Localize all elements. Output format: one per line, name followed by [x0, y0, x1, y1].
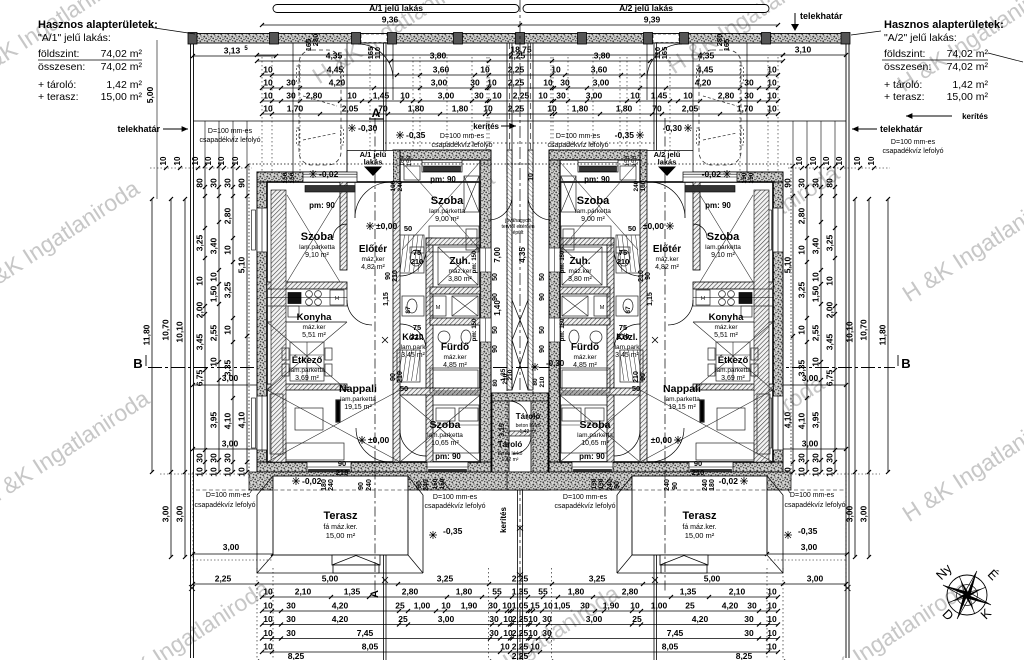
- column extension lines up: [204, 121, 206, 166]
- svg-text:10: 10: [492, 91, 502, 101]
- svg-text:90: 90: [358, 482, 365, 490]
- unit A/1 wall szoba1/konyha: [267, 282, 347, 289]
- A/1 door arc elotér-szoba1: [333, 224, 347, 238]
- svg-text:10: 10: [538, 91, 548, 101]
- vcol x855r: [854, 199, 856, 557]
- svg-text:2,80: 2,80: [223, 207, 233, 224]
- svg-text:1,00: 1,00: [651, 601, 668, 611]
- dim 3,10 right: [783, 54, 846, 56]
- unit A/2 inner face: [560, 182, 773, 462]
- svg-text:75: 75: [413, 323, 421, 332]
- svg-text:3,25: 3,25: [223, 281, 233, 298]
- svg-text:9,00 m²: 9,00 m²: [581, 216, 605, 223]
- svg-text:pm: 150: pm: 150: [560, 250, 566, 273]
- svg-text:10: 10: [809, 156, 818, 165]
- svg-text:25: 25: [685, 601, 695, 611]
- svg-text:pm: 90: pm: 90: [435, 452, 461, 461]
- svg-text:30: 30: [489, 628, 499, 638]
- A/1 diag szobaNE: [402, 162, 480, 250]
- svg-text:210: 210: [692, 468, 705, 477]
- unit A/2 window nappali left: [773, 396, 783, 450]
- svg-text:3,45 m²: 3,45 m²: [401, 352, 425, 359]
- apron dashed bottom line: [196, 489, 845, 491]
- svg-text:30: 30: [744, 628, 754, 638]
- svg-text:3,00: 3,00: [431, 78, 448, 88]
- svg-text:8,05: 8,05: [662, 642, 679, 652]
- svg-text:10: 10: [528, 614, 538, 624]
- dim 18,75 center: [257, 54, 783, 56]
- A/2 sofa: [757, 394, 770, 454]
- A/2 bed szobaSE: [561, 405, 607, 453]
- unit A/1 inner face: [267, 182, 480, 462]
- svg-text:Nappali: Nappali: [663, 383, 701, 395]
- A/2 wc fixtures: [616, 296, 638, 316]
- A/1 sofa: [270, 394, 283, 454]
- terrace A/2 floor: [632, 476, 767, 555]
- svg-text:3,95: 3,95: [209, 411, 219, 428]
- svg-text:pm: 150: pm: 150: [472, 318, 478, 341]
- unit A/1 outer wall left: [257, 172, 267, 472]
- svg-text:10: 10: [797, 325, 807, 335]
- svg-text:50: 50: [400, 384, 408, 393]
- svg-text:4,35: 4,35: [698, 51, 715, 61]
- A/1 level -0,02 top: [309, 170, 317, 178]
- A/2 diag nappali: [640, 390, 773, 462]
- svg-text:75: 75: [413, 248, 421, 257]
- svg-text:10: 10: [630, 91, 640, 101]
- svg-text:-0,30: -0,30: [546, 359, 565, 368]
- svg-text:30: 30: [560, 78, 570, 88]
- A/1 door arc nappali terrace: [356, 428, 390, 462]
- svg-text:7,45: 7,45: [357, 628, 374, 638]
- svg-text:280: 280: [311, 34, 320, 47]
- svg-text:30: 30: [747, 601, 757, 611]
- unit A/1 window protrusion: [422, 160, 462, 172]
- tarolo door arcs: [509, 401, 528, 420]
- svg-text:7,00: 7,00: [493, 247, 502, 263]
- dim 3,00 right bottom: [657, 448, 846, 450]
- svg-text:+ tároló:: + tároló:: [38, 79, 76, 91]
- unit A/2 wall konyha/étkező openline: [693, 321, 773, 323]
- svg-text:2,10: 2,10: [295, 587, 312, 597]
- dim line 3,00 upper r: [657, 384, 846, 386]
- corridor wall left: [507, 150, 512, 390]
- svg-text:3,80: 3,80: [594, 51, 611, 61]
- svg-text:±0,00: ±0,00: [643, 221, 664, 231]
- svg-text:80: 80: [825, 178, 835, 188]
- svg-text:földszint:: földszint:: [884, 48, 925, 60]
- svg-text:30: 30: [811, 453, 821, 463]
- dim row top C: [262, 87, 778, 89]
- svg-text:10: 10: [263, 587, 273, 597]
- svg-text:210: 210: [411, 257, 424, 266]
- svg-text:csapadékvíz lefolyó: csapadékvíz lefolyó: [554, 503, 615, 510]
- svg-text:10: 10: [767, 91, 777, 101]
- A/1 bed szobaNE: [429, 226, 479, 252]
- svg-text:10,70: 10,70: [161, 319, 171, 341]
- svg-text:Zuh.: Zuh.: [569, 256, 590, 267]
- svg-text:csapadékvíz lefolyó: csapadékvíz lefolyó: [194, 502, 255, 509]
- svg-text:10: 10: [822, 156, 831, 165]
- svg-text:Tároló: Tároló: [516, 412, 541, 421]
- svg-text:máz.ker: máz.ker: [568, 268, 592, 275]
- svg-text:3,00: 3,00: [845, 505, 855, 522]
- A/2 diag szobaNE: [560, 162, 638, 250]
- svg-text:10: 10: [767, 104, 777, 114]
- svg-text:210: 210: [411, 332, 424, 341]
- svg-text:1,50: 1,50: [209, 285, 219, 302]
- A/2 bathtub: [559, 368, 610, 393]
- svg-text:280: 280: [715, 34, 724, 47]
- right plot boundary (telekhatár): [845, 40, 847, 658]
- svg-text:1,42 m²: 1,42 m²: [106, 79, 142, 91]
- A/1 wc fixtures: [402, 296, 424, 316]
- svg-text:Étkező: Étkező: [718, 355, 749, 366]
- svg-text:30: 30: [223, 453, 233, 463]
- dim bottom row6: [262, 651, 778, 653]
- A/1 level -0,35 front: [396, 131, 404, 139]
- svg-text:10: 10: [209, 357, 219, 367]
- garden fence right x656: [653, 43, 655, 660]
- A/1 wall inner hatch strip: [271, 190, 286, 462]
- svg-text:10: 10: [231, 156, 240, 165]
- svg-text:80: 80: [492, 379, 499, 387]
- A/2 bed szobaNE: [561, 226, 611, 252]
- svg-text:lam.parketta: lam.parketta: [340, 396, 376, 403]
- A/1 bathtub: [430, 368, 481, 393]
- section axis A right: [664, 118, 666, 592]
- svg-text:74,02 m²: 74,02 m²: [101, 61, 143, 73]
- svg-text:összesen:: összesen:: [38, 61, 85, 73]
- unit A/2 wall szobaNE/zuh: [560, 238, 614, 245]
- svg-text:csapadékvíz lefolyó: csapadékvíz lefolyó: [431, 142, 492, 149]
- svg-text:30: 30: [811, 178, 821, 188]
- svg-text:30: 30: [488, 601, 498, 611]
- tarolo wall left: [492, 393, 509, 490]
- svg-text:3,00: 3,00: [802, 373, 819, 383]
- svg-text:Szoba: Szoba: [431, 195, 464, 207]
- unit A/2 corridor wall recess2: [549, 318, 560, 342]
- svg-text:50: 50: [404, 224, 412, 233]
- fence gate gap right: [653, 34, 679, 43]
- svg-text:2,25: 2,25: [508, 65, 525, 75]
- svg-text:2,80: 2,80: [622, 587, 639, 597]
- terrace A/2 roof outline: [616, 495, 618, 573]
- svg-text:1,35: 1,35: [500, 368, 507, 381]
- svg-text:10: 10: [263, 104, 273, 114]
- svg-text:90: 90: [539, 345, 546, 353]
- svg-text:11,80: 11,80: [142, 324, 152, 345]
- unit A/2 wall szoba1/elotér: [693, 182, 700, 270]
- tarolo divider: [509, 431, 531, 436]
- dim 3,00 left bottom: [193, 448, 383, 450]
- svg-text:Konyha: Konyha: [709, 312, 745, 323]
- corridor door arc from A2: [528, 196, 552, 220]
- unit A/2 outer wall left: [773, 172, 783, 472]
- A/1 level -0,02 bottom: [292, 477, 300, 485]
- svg-text:10: 10: [195, 276, 205, 286]
- svg-text:4,10: 4,10: [223, 412, 233, 429]
- svg-text:10: 10: [263, 65, 273, 75]
- svg-text:10: 10: [487, 78, 497, 88]
- car dashed A/2: [699, 50, 741, 165]
- svg-text:5,10: 5,10: [237, 256, 247, 273]
- svg-text:10: 10: [217, 156, 226, 165]
- apron bottom band: [249, 472, 533, 490]
- svg-text:10: 10: [263, 601, 273, 611]
- svg-text:1,42 m²: 1,42 m²: [952, 79, 988, 91]
- svg-text:74,02 m²: 74,02 m²: [947, 48, 989, 60]
- A/1 door arc konyha: [347, 300, 372, 325]
- svg-text:87: 87: [405, 306, 412, 314]
- svg-text:50: 50: [492, 273, 499, 281]
- svg-text:+ tároló:: + tároló:: [884, 79, 922, 91]
- svg-text:D=100 mm-es: D=100 mm-es: [440, 133, 485, 140]
- svg-text:210: 210: [397, 371, 404, 383]
- svg-text:Konyha: Konyha: [297, 312, 333, 323]
- compass rose: [947, 575, 987, 615]
- svg-text:telekhatár: telekhatár: [800, 11, 843, 21]
- svg-text:épült: épült: [513, 230, 524, 236]
- dim bottom row5: [262, 638, 778, 640]
- unit A/1 porch: [347, 151, 393, 182]
- fence x-marks: [382, 337, 388, 343]
- svg-text:240: 240: [702, 479, 709, 491]
- vcol x233: [232, 166, 234, 472]
- svg-text:210: 210: [633, 371, 640, 383]
- svg-text:lam.parketta: lam.parketta: [577, 432, 613, 439]
- vcol x219: [218, 166, 220, 472]
- svg-text:Terasz: Terasz: [323, 510, 358, 522]
- svg-text:10: 10: [263, 642, 273, 652]
- unit A/1 wall zuh/wc: [430, 287, 480, 294]
- unit A/2 porch: [647, 151, 693, 182]
- svg-text:55: 55: [492, 587, 502, 597]
- svg-text:30: 30: [286, 78, 296, 88]
- svg-text:50: 50: [539, 273, 546, 281]
- svg-text:D=100 mm-es: D=100 mm-es: [208, 128, 253, 135]
- svg-text:1,80: 1,80: [452, 104, 469, 114]
- svg-text:csapadékvíz lefolyó: csapadékvíz lefolyó: [199, 137, 260, 144]
- apron dotted outline: [249, 164, 533, 480]
- svg-text:90: 90: [390, 373, 397, 381]
- A/1 level ±0,00 nappali: [358, 436, 366, 444]
- A/2 diag szoba1: [700, 195, 753, 282]
- svg-text:1,40: 1,40: [493, 300, 502, 316]
- svg-text:4,82 m²: 4,82 m²: [655, 264, 679, 271]
- vcol x247: [246, 166, 248, 472]
- unit A/1 wall étkező/nappali: [267, 384, 347, 390]
- svg-text:15,00 m²: 15,00 m²: [326, 531, 356, 540]
- svg-text:A: A: [372, 106, 381, 120]
- svg-text:30: 30: [744, 91, 754, 101]
- svg-text:B: B: [133, 356, 142, 371]
- svg-text:A/2 jelű lakás: A/2 jelű lakás: [619, 3, 673, 13]
- svg-text:2,05: 2,05: [682, 104, 699, 114]
- svg-text:2,25: 2,25: [215, 574, 232, 584]
- svg-text:pm: 90: pm: 90: [309, 201, 335, 210]
- svg-text:10: 10: [483, 104, 493, 114]
- svg-text:1,90: 1,90: [603, 601, 620, 611]
- svg-text:30: 30: [223, 178, 233, 188]
- svg-text:19,15 m²: 19,15 m²: [344, 404, 372, 411]
- svg-text:1,15: 1,15: [647, 292, 654, 306]
- unit A/2 outer wall bottom: [549, 462, 783, 472]
- svg-text:150: 150: [748, 172, 755, 183]
- svg-text:110: 110: [373, 47, 382, 59]
- section axis A left: [374, 118, 376, 592]
- svg-text:D=100 mm-es: D=100 mm-es: [790, 492, 835, 499]
- svg-text:210: 210: [638, 270, 645, 282]
- svg-text:1,80: 1,80: [568, 587, 585, 597]
- svg-text:3,25: 3,25: [797, 281, 807, 298]
- svg-text:10: 10: [204, 156, 213, 165]
- dim bottom row4: [262, 624, 778, 626]
- svg-text:90: 90: [385, 272, 392, 280]
- svg-text:30: 30: [580, 601, 590, 611]
- svg-text:2,55: 2,55: [811, 324, 821, 341]
- A/1 bed szobaSE: [433, 405, 479, 453]
- svg-text:3,80: 3,80: [430, 51, 447, 61]
- svg-text:3,45: 3,45: [195, 333, 205, 350]
- svg-text:3,00: 3,00: [175, 505, 185, 522]
- svg-text:+ terasz:: + terasz:: [38, 91, 79, 103]
- svg-text:10: 10: [500, 642, 510, 652]
- unit A/2 window protrusion: [578, 160, 618, 172]
- svg-text:30: 30: [744, 614, 754, 624]
- svg-text:150: 150: [399, 155, 406, 166]
- svg-text:10: 10: [209, 272, 219, 282]
- svg-text:6,75: 6,75: [825, 369, 835, 386]
- vcol x793r: [792, 166, 794, 472]
- svg-text:lakás: lakás: [364, 158, 383, 167]
- svg-text:3,40: 3,40: [811, 237, 821, 254]
- svg-text:1,00: 1,00: [414, 601, 431, 611]
- svg-text:80: 80: [195, 178, 205, 188]
- svg-text:1,15: 1,15: [383, 292, 390, 306]
- driveway strip A/1: [292, 43, 294, 172]
- svg-text:90: 90: [694, 459, 702, 468]
- svg-text:3,95: 3,95: [811, 411, 821, 428]
- unit A/2 window nappali bottom: [689, 462, 733, 472]
- svg-text:25: 25: [398, 614, 408, 624]
- svg-text:1,50: 1,50: [811, 285, 821, 302]
- vcol x185: [184, 199, 186, 557]
- A/2 level -0,35 front: [636, 131, 644, 139]
- unit A/2 wall szoba1/konyha: [693, 282, 773, 289]
- svg-text:"A/1" jelű lakás:: "A/1" jelű lakás:: [38, 32, 111, 44]
- svg-text:10: 10: [223, 467, 233, 477]
- unit A/1 outer wall top: [257, 172, 347, 182]
- svg-text:5,00: 5,00: [704, 574, 721, 584]
- svg-text:máz.ker: máz.ker: [448, 268, 472, 275]
- A/2 diag szobaSE: [560, 395, 640, 462]
- unit A/2 wall wc/fürdő: [560, 318, 610, 325]
- A/1 door arc fürdő: [400, 324, 426, 350]
- svg-text:lam.parketta: lam.parketta: [715, 367, 751, 374]
- svg-text:240: 240: [607, 479, 614, 491]
- unit A/1 corridor wall recess1: [480, 248, 491, 272]
- A/2 kitchen counter: [693, 289, 773, 306]
- svg-text:3,00: 3,00: [801, 542, 818, 552]
- svg-text:2,55: 2,55: [209, 324, 219, 341]
- svg-text:4,85 m²: 4,85 m²: [573, 362, 597, 369]
- svg-text:1,05: 1,05: [554, 601, 571, 611]
- A/1 diag szobaSE: [400, 395, 480, 462]
- svg-text:30: 30: [542, 614, 552, 624]
- svg-text:Zuh.: Zuh.: [449, 256, 470, 267]
- svg-text:10: 10: [263, 628, 273, 638]
- svg-text:100: 100: [390, 180, 397, 191]
- svg-text:2,80: 2,80: [718, 91, 735, 101]
- svg-text:3,45 m²: 3,45 m²: [615, 352, 639, 359]
- svg-text:25: 25: [395, 601, 405, 611]
- svg-text:pm: 90: pm: 90: [584, 175, 610, 184]
- svg-text:90: 90: [672, 482, 679, 490]
- svg-text:1,42 m²: 1,42 m²: [520, 429, 537, 435]
- svg-text:3,25: 3,25: [195, 234, 205, 251]
- svg-text:lam.parketta: lam.parketta: [705, 244, 741, 251]
- A/1 tv: [336, 400, 340, 422]
- svg-text:10: 10: [767, 65, 777, 75]
- svg-text:2,00: 2,00: [825, 301, 835, 318]
- svg-text:2,05: 2,05: [342, 104, 359, 114]
- svg-text:4,20: 4,20: [692, 614, 709, 624]
- A/1 diag szoba1: [287, 195, 340, 282]
- svg-text:Fürdő: Fürdő: [441, 342, 469, 353]
- svg-text:30: 30: [542, 628, 552, 638]
- svg-text:90: 90: [783, 178, 793, 188]
- svg-text:10: 10: [853, 156, 862, 165]
- A/2 door arc elotér-szoba1: [693, 224, 707, 238]
- svg-text:30: 30: [286, 601, 296, 611]
- svg-text:fá máz.ker.: fá máz.ker.: [323, 524, 357, 531]
- svg-text:10,10: 10,10: [175, 321, 185, 343]
- svg-text:máz.ker: máz.ker: [655, 256, 679, 263]
- drain leader left: [440, 478, 450, 490]
- svg-text:B: B: [901, 356, 910, 371]
- svg-text:3,40: 3,40: [209, 237, 219, 254]
- svg-text:30: 30: [474, 91, 484, 101]
- svg-text:210: 210: [392, 270, 399, 282]
- unit A/1 wall konyha/étkező openline: [267, 321, 347, 323]
- unit A/1 window szobaSE bottom: [427, 462, 468, 472]
- vcol x869r: [868, 199, 870, 557]
- vcol x807r: [806, 166, 808, 472]
- svg-text:csapadékvíz lefolyó: csapadékvíz lefolyó: [547, 142, 608, 149]
- svg-text:3,00: 3,00: [586, 614, 603, 624]
- svg-text:10: 10: [263, 78, 273, 88]
- svg-text:5,00: 5,00: [322, 574, 339, 584]
- svg-text:máz.ker: máz.ker: [361, 256, 385, 263]
- svg-text:75: 75: [619, 323, 627, 332]
- svg-text:10: 10: [263, 614, 273, 624]
- svg-text:210: 210: [539, 376, 546, 387]
- dim row top B: [262, 74, 778, 76]
- tarolo wall top: [492, 393, 548, 401]
- unit A/2 outer wall right(corridor): [549, 150, 560, 472]
- svg-text:10: 10: [528, 628, 538, 638]
- svg-text:1,80: 1,80: [616, 104, 633, 114]
- svg-text:+ terasz:: + terasz:: [884, 91, 925, 103]
- dim row 9,36 9,39: [262, 24, 778, 26]
- svg-text:3,00: 3,00: [859, 505, 869, 522]
- A/2 wall inner hatch strip: [754, 190, 769, 462]
- A/2 shower: [562, 247, 602, 285]
- vcol x835r: [834, 166, 836, 472]
- dim bottom row2: [262, 596, 778, 598]
- svg-text:10: 10: [811, 467, 821, 477]
